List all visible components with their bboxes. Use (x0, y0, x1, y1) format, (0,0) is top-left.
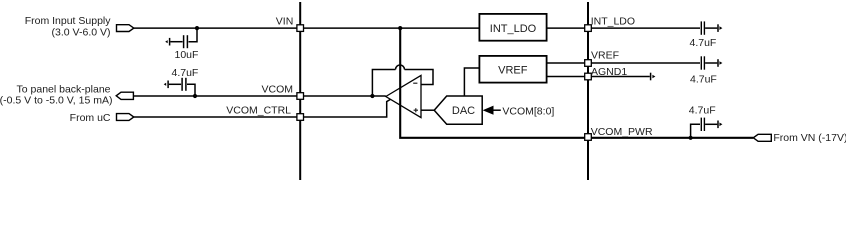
pin VCOM_CTRL (297, 114, 304, 121)
pin VIN (297, 25, 304, 32)
svg-text:VREF: VREF (591, 50, 619, 62)
chip right edge (587, 2, 589, 180)
svg-text:4.7uF: 4.7uF (689, 105, 716, 117)
pin VCOM (297, 93, 304, 100)
pin VCOM_PWR (585, 134, 592, 141)
svg-text:From uC: From uC (70, 112, 111, 124)
wire: VREF box to VREF pin (547, 62, 585, 64)
DAC pentagon (434, 96, 482, 124)
svg-text:10uF: 10uF (175, 49, 199, 61)
node: VN cap tap (689, 136, 693, 140)
svg-text:4.7uF: 4.7uF (690, 37, 717, 49)
input tag: From Input Supply (117, 25, 134, 32)
terminal symbol AGND1 (650, 73, 652, 81)
wire VIN rail (134, 27, 479, 29)
wire: terminal to cap (169, 83, 181, 85)
svg-text:4.7uF: 4.7uF (690, 74, 717, 86)
wire: plus input to DAC (421, 109, 434, 111)
input tag: From uC (117, 114, 134, 121)
wire: DAC to VREF (464, 68, 478, 96)
svg-text:From Input Supply: From Input Supply (25, 15, 112, 27)
wire: cap to terminal (705, 62, 717, 64)
VCOM[8:0] arrow into DAC (483, 106, 494, 115)
capacitor 4.7uF (VN) plates (700, 118, 702, 131)
wire: VREF box to AGND1 pin (547, 76, 585, 78)
svg-text:INT_LDO: INT_LDO (490, 23, 537, 35)
wire: 10uF cap drop (189, 28, 198, 42)
chip left edge (299, 2, 301, 180)
svg-text:VCOM_CTRL: VCOM_CTRL (226, 105, 291, 117)
wire: tap up to cap (691, 124, 700, 138)
svg-text:DAC: DAC (452, 105, 475, 117)
terminal symbol (right) (717, 121, 719, 129)
wire: cap to terminal (705, 27, 717, 29)
op-amp U1 triangle (points left) (386, 75, 421, 117)
wire: cap to terminal (170, 41, 182, 43)
central vertical rail and VCOM_PWR rail (400, 28, 753, 138)
terminal symbol (right) (717, 59, 719, 67)
node: 4.7uF tap on VCOM (193, 94, 197, 98)
node: central rail tap on VIN (398, 26, 402, 30)
svg-text:(3.0 V-6.0 V): (3.0 V-6.0 V) (52, 27, 111, 39)
terminal symbol (left) for 10uF (169, 38, 171, 46)
svg-text:From VN (-17V): From VN (-17V) (773, 132, 846, 144)
svg-text:VIN: VIN (276, 15, 294, 27)
INT_LDO box (479, 14, 546, 41)
terminal symbol (right) (717, 24, 719, 32)
node: 10uF tap on VIN (195, 26, 199, 30)
capacitor 4.7uF (VREF) plates (700, 56, 702, 69)
input tag: From VN (753, 134, 771, 141)
capacitor C1 10uF plates (183, 35, 185, 48)
wire: VREF pin to cap (591, 62, 700, 64)
wire: cap to terminal (705, 123, 717, 125)
pin AGND1 (585, 73, 592, 80)
svg-text:VCOM[8:0]: VCOM[8:0] (502, 105, 554, 117)
wire: cap to VCOM rail (187, 84, 195, 96)
op-amp minus input mark (413, 82, 417, 84)
capacitor 4.7uF (INT_LDO) plates (700, 21, 702, 34)
pin VREF (585, 60, 592, 67)
output tag: To panel back-plane (116, 92, 133, 99)
wire: AGND1 pin to terminal (591, 76, 650, 78)
wire: INT_LDO box to pin (547, 27, 585, 29)
svg-text:4.7uF: 4.7uF (172, 67, 199, 79)
terminal symbol (left) for 4.7uF (167, 81, 169, 89)
svg-text:(-0.5 V to -5.0 V, 15 mA): (-0.5 V to -5.0 V, 15 mA) (0, 94, 113, 106)
svg-text:VCOM: VCOM (262, 84, 294, 96)
svg-text:VCOM_PWR: VCOM_PWR (591, 126, 653, 138)
pin INT_LDO (585, 25, 592, 32)
wire VCOM_CTRL rail (134, 100, 390, 118)
wire: INT_LDO pin to cap (591, 27, 700, 29)
op-amp U1 feedback: node on output (370, 94, 374, 98)
svg-text:INT_LDO: INT_LDO (591, 16, 635, 28)
op-amp plus input mark (414, 109, 418, 111)
svg-text:VREF: VREF (498, 64, 528, 76)
wire VCOM rail (133, 95, 385, 97)
VREF box (479, 56, 546, 83)
capacitor C2 4.7uF plates (181, 78, 183, 91)
wire feedback loop (with hop over central rail) (372, 70, 395, 97)
